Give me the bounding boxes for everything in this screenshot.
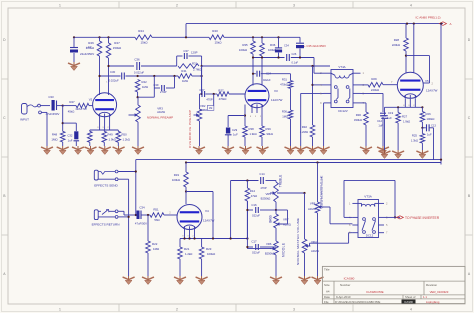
svg-text:C12: C12: [377, 119, 382, 123]
svg-text:330kΩ: 330kΩ: [354, 118, 362, 122]
svg-text:C13: C13: [431, 123, 436, 127]
svg-text:OVERDRIVE PREAMP: OVERDRIVE PREAMP: [188, 110, 192, 148]
svg-text:DC12: DC12: [366, 234, 374, 238]
svg-text:1.9kΩ: 1.9kΩ: [250, 132, 257, 136]
svg-text:4: 4: [410, 3, 412, 7]
svg-text:1.2kΩ: 1.2kΩ: [123, 138, 130, 142]
svg-text:VR7: VR7: [283, 218, 289, 222]
svg-text:470kΩ: 470kΩ: [280, 83, 288, 87]
svg-text:VT3A: VT3A: [364, 195, 372, 199]
svg-text:R36: R36: [270, 43, 276, 47]
svg-text:R29: R29: [371, 77, 377, 81]
svg-text:1: 1: [59, 3, 61, 7]
svg-text:47kΩ: 47kΩ: [251, 194, 257, 198]
svg-text:V5: V5: [425, 79, 429, 83]
svg-text:A4: A4: [326, 290, 330, 294]
svg-text:R27: R27: [402, 115, 408, 119]
svg-text:ICAS80.PRE: ICAS80.PRE: [366, 290, 383, 294]
svg-text:99kΩ: 99kΩ: [267, 132, 273, 136]
svg-text:INPUT: INPUT: [20, 117, 29, 121]
svg-text:R19: R19: [174, 173, 180, 177]
svg-text:R21: R21: [184, 247, 190, 251]
svg-text:ICAS80: ICAS80: [404, 300, 413, 304]
svg-text:100kΩ: 100kΩ: [239, 48, 247, 52]
svg-text:C16: C16: [251, 203, 257, 207]
svg-text:Size: Size: [324, 283, 330, 287]
svg-text:BASS: BASS: [269, 215, 273, 223]
svg-text:1uF: 1uF: [427, 133, 432, 137]
svg-text:15kΩ: 15kΩ: [140, 41, 148, 45]
svg-text:15kΩ: 15kΩ: [214, 41, 222, 45]
svg-text:R46: R46: [88, 41, 94, 45]
svg-text:VR5: VR5: [266, 192, 272, 196]
svg-text:56Ω: 56Ω: [154, 218, 159, 222]
svg-text:V4: V4: [205, 209, 209, 213]
svg-text:R41: R41: [181, 69, 187, 73]
svg-text:V2: V2: [89, 97, 93, 101]
svg-text:R39: R39: [266, 127, 272, 131]
svg-text:Date: Date: [324, 295, 330, 299]
svg-text:A1MΩ: A1MΩ: [308, 207, 316, 211]
svg-text:0.022uF: 0.022uF: [108, 78, 119, 82]
svg-text:100kΩ: 100kΩ: [207, 252, 215, 256]
svg-text:C37: C37: [183, 49, 189, 53]
svg-text:120P: 120P: [191, 51, 198, 55]
svg-text:Title: Title: [324, 268, 330, 272]
svg-text:B250kΩ: B250kΩ: [265, 251, 275, 255]
svg-text:4: 4: [410, 307, 412, 311]
svg-text:2.7MΩ: 2.7MΩ: [193, 68, 201, 72]
svg-text:220kΩ: 220kΩ: [371, 88, 379, 92]
svg-text:12AX7W: 12AX7W: [271, 98, 283, 102]
svg-text:C34: C34: [284, 44, 289, 48]
svg-text:R47: R47: [114, 41, 120, 45]
svg-text:1.9kΩ: 1.9kΩ: [403, 120, 410, 124]
svg-text:VR6: VR6: [266, 242, 272, 246]
svg-text:1MΩ: 1MΩ: [182, 79, 188, 83]
svg-text:2: 2: [176, 307, 178, 311]
svg-text:022uF: 022uF: [252, 214, 260, 218]
svg-text:R31: R31: [192, 62, 198, 66]
svg-text:C34: C34: [139, 206, 145, 210]
svg-text:EFFECTS SEND: EFFECTS SEND: [94, 184, 118, 188]
svg-text:47uF/50V: 47uF/50V: [135, 222, 147, 226]
svg-text:R25: R25: [412, 134, 418, 138]
svg-text:Liqingfang: Liqingfang: [426, 300, 440, 304]
svg-text:Revision: Revision: [426, 283, 437, 287]
svg-text:C17: C17: [251, 240, 257, 244]
svg-text:R35: R35: [242, 43, 248, 47]
svg-text:File: File: [324, 300, 329, 304]
svg-text:0.022uF: 0.022uF: [134, 70, 145, 74]
svg-text:220kΩ: 220kΩ: [392, 43, 400, 47]
svg-text:47uF/450V: 47uF/450V: [46, 112, 60, 116]
svg-text:R36: R36: [282, 110, 288, 114]
svg-text:R14: R14: [250, 189, 256, 193]
svg-text:022uF: 022uF: [263, 78, 271, 82]
svg-text:A1MΩ: A1MΩ: [157, 110, 165, 114]
svg-text:2: 2: [176, 3, 178, 7]
svg-text:R51: R51: [153, 208, 159, 212]
svg-text:1MΩ: 1MΩ: [142, 85, 148, 89]
svg-text:OVERDRIVE MASTER VOLUME: OVERDRIVE MASTER VOLUME: [320, 176, 324, 209]
svg-text:NORMAL PREAMP: NORMAL PREAMP: [147, 115, 173, 119]
svg-text:3: 3: [293, 3, 295, 7]
svg-text:C39: C39: [153, 83, 159, 87]
svg-text:1uF: 1uF: [378, 124, 383, 128]
svg-text:R22: R22: [152, 242, 158, 246]
svg-text:C14: C14: [259, 172, 265, 176]
svg-text:100kΩ: 100kΩ: [172, 178, 180, 182]
svg-text:C26: C26: [292, 52, 297, 56]
svg-text:Sheet of: Sheet of: [405, 295, 416, 299]
svg-text:R40: R40: [212, 29, 218, 33]
svg-text:1MΩ: 1MΩ: [51, 138, 58, 142]
svg-text:470P: 470P: [260, 186, 266, 190]
svg-text:C29: C29: [232, 128, 238, 132]
svg-text:470P: 470P: [206, 98, 212, 102]
svg-text:C33: C33: [48, 95, 54, 99]
svg-text:VT4A: VT4A: [338, 65, 345, 69]
svg-text:Number: Number: [340, 283, 350, 287]
svg-text:ICAS80: ICAS80: [344, 276, 355, 280]
svg-text:1uF: 1uF: [233, 132, 238, 136]
svg-text:R32: R32: [302, 125, 308, 129]
svg-text:1.1: 1.1: [423, 295, 427, 299]
svg-text:12AX7W: 12AX7W: [203, 219, 215, 223]
svg-text:D:\XKAZE\JCI\ICAN80\ICAN80 PRE: D:\XKAZE\JCI\ICAN80\ICAN80 PRE: [335, 300, 381, 304]
svg-text:1MΩ: 1MΩ: [282, 115, 288, 119]
svg-text:R49: R49: [108, 133, 114, 137]
svg-text:1.2kΩ: 1.2kΩ: [185, 252, 192, 256]
svg-text:EFFECTS RETURN: EFFECTS RETURN: [92, 223, 120, 227]
svg-text:R48: R48: [52, 133, 58, 137]
svg-text:1uF: 1uF: [68, 138, 73, 142]
svg-text:R23: R23: [206, 247, 212, 251]
svg-text:R42: R42: [142, 80, 148, 84]
svg-text:R30: R30: [356, 113, 362, 117]
svg-text:C30: C30: [110, 70, 116, 74]
svg-text:R31: R31: [282, 78, 288, 82]
svg-text:1M: 1M: [209, 107, 212, 110]
svg-text:R47: R47: [69, 100, 75, 104]
svg-text:B250kΩ: B250kΩ: [261, 197, 271, 201]
svg-text:22uF/450V: 22uF/450V: [80, 52, 94, 56]
svg-text:150kΩ: 150kΩ: [113, 46, 122, 50]
svg-text:0.1uF: 0.1uF: [292, 61, 299, 65]
svg-text:1: 1: [59, 307, 61, 311]
svg-text:TREBLE: TREBLE: [279, 175, 283, 188]
svg-text:100kΩ: 100kΩ: [427, 117, 435, 121]
svg-text:1.3kΩ: 1.3kΩ: [411, 139, 418, 143]
svg-text:+ C35 22uF/450V: + C35 22uF/450V: [304, 44, 326, 48]
svg-text:022uF: 022uF: [252, 251, 260, 255]
svg-text:1.9kΩ: 1.9kΩ: [109, 138, 116, 142]
svg-text:R28: R28: [394, 38, 400, 42]
svg-text:VER_0100323: VER_0100323: [430, 290, 449, 294]
svg-text:9-Apr-2010: 9-Apr-2010: [336, 295, 351, 299]
svg-text:270P: 270P: [160, 90, 167, 94]
svg-text:TO PHASE INVERTER: TO PHASE INVERTER: [405, 216, 440, 220]
svg-text:A1MΩ: A1MΩ: [283, 223, 291, 227]
svg-text:1MΩ: 1MΩ: [153, 247, 160, 251]
svg-text:R38: R38: [249, 127, 255, 131]
svg-text:C19: C19: [388, 111, 394, 115]
svg-text:A1MΩ: A1MΩ: [199, 108, 207, 112]
svg-text:3: 3: [293, 307, 295, 311]
svg-text:R26: R26: [426, 112, 432, 116]
svg-text:45kΩ: 45kΩ: [68, 110, 75, 114]
svg-text:1uF: 1uF: [387, 116, 392, 120]
svg-text:MIDDLE: MIDDLE: [282, 243, 286, 257]
svg-text:VR8: VR8: [310, 202, 316, 206]
svg-text:C27: C27: [199, 88, 205, 92]
svg-text:220kΩ: 220kΩ: [86, 46, 95, 50]
svg-text:C36: C36: [134, 57, 140, 61]
svg-text:R44: R44: [138, 29, 144, 33]
svg-text:V3: V3: [274, 89, 278, 93]
svg-text:NORMAL MASTER VOLUME: NORMAL MASTER VOLUME: [296, 218, 300, 265]
svg-text:DC12V: DC12V: [338, 109, 347, 113]
svg-text:R37: R37: [218, 88, 224, 92]
svg-text:IC AN80 PRE(1:2): IC AN80 PRE(1:2): [415, 16, 440, 20]
svg-text:12AX7W: 12AX7W: [426, 89, 438, 93]
svg-text:R50: R50: [122, 133, 128, 137]
svg-text:C32: C32: [67, 133, 73, 137]
svg-text:470kΩ: 470kΩ: [219, 97, 227, 101]
svg-text:A: A: [449, 22, 451, 26]
